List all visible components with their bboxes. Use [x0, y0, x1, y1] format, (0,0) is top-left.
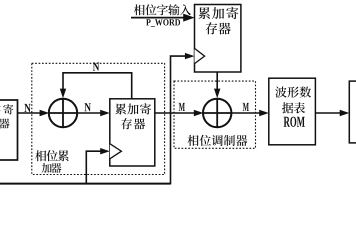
label 相位累 (phase accumulator line1) [35, 150, 68, 161]
arrowhead into ROM [259, 110, 269, 116]
wire P_WORD input [131, 17, 184, 19]
register: accumulate register 累加寄存器 (phase accumulator) [110, 99, 155, 166]
label 相位调制器 (phase modulator) [187, 135, 247, 146]
dashed box: phase accumulator 相位累加器 [32, 63, 165, 174]
text 累加寄 (register1 line1) [115, 103, 151, 114]
adder (phase accumulator) [49, 99, 77, 127]
wire clock riser to top register [171, 56, 187, 184]
label N (adder1 out) [84, 103, 90, 111]
text 存器 (register1 line2) [121, 118, 145, 129]
arrowhead into output box [340, 110, 350, 116]
arrowhead into top register [183, 14, 194, 22]
register: top accumulate register 累加寄存器 [195, 5, 241, 73]
label P_WORD [146, 19, 180, 27]
label 相位字输入 (phase word input) [134, 4, 191, 15]
wire adder1 to register1 [77, 112, 102, 114]
label M (register1 out) [179, 103, 185, 111]
label ROM [284, 117, 305, 127]
arrowhead into register1 [100, 110, 110, 116]
label N (input) [24, 104, 30, 112]
text 存器 (left register line2, clipped) [0, 118, 10, 128]
text 频率字寄 (left register line1, clipped) [0, 104, 13, 114]
arrowhead clock into top register [185, 53, 195, 59]
wire register1 to adder2 with M [155, 112, 195, 114]
wire left register to adder1 with N [18, 112, 41, 114]
box: output stage (cut off at right edge) [349, 81, 356, 143]
clock triangle of top register [195, 48, 205, 63]
text 据表 (ROM line2) [282, 102, 305, 113]
label 加器 (phase accumulator line2) [42, 163, 62, 173]
text 存器 (top register line2) [206, 22, 231, 34]
dashed box: phase modulator 相位调制器 [174, 81, 256, 148]
ROM: waveform data table 波形数据表 ROM [269, 78, 316, 145]
arrowhead into adder1 [40, 110, 50, 116]
adder (phase modulator) [203, 99, 231, 127]
arrowhead into adder2 [194, 110, 204, 116]
wire ROM to output box [315, 112, 340, 114]
register (frequency word, cut off at left edge) [0, 100, 18, 160]
wire top register to adder2 [216, 72, 218, 90]
wire clock riser to register1 [86, 151, 101, 184]
label M (adder2 out) [243, 103, 249, 111]
wire feedback register1 to adder1 [63, 73, 132, 99]
label N (feedback) [93, 62, 99, 70]
wire adder2 to ROM with M [231, 112, 260, 114]
arrowhead clock into register1 [100, 148, 110, 154]
clock triangle of register1 [110, 144, 122, 159]
arrowhead feedback into adder1 top [60, 89, 66, 99]
wire clock bus (bottom) [0, 183, 171, 185]
arrowhead into adder2 top [214, 89, 220, 99]
text 波形数 (ROM line1) [275, 86, 311, 97]
text 累加寄 (top register line1) [198, 7, 238, 19]
